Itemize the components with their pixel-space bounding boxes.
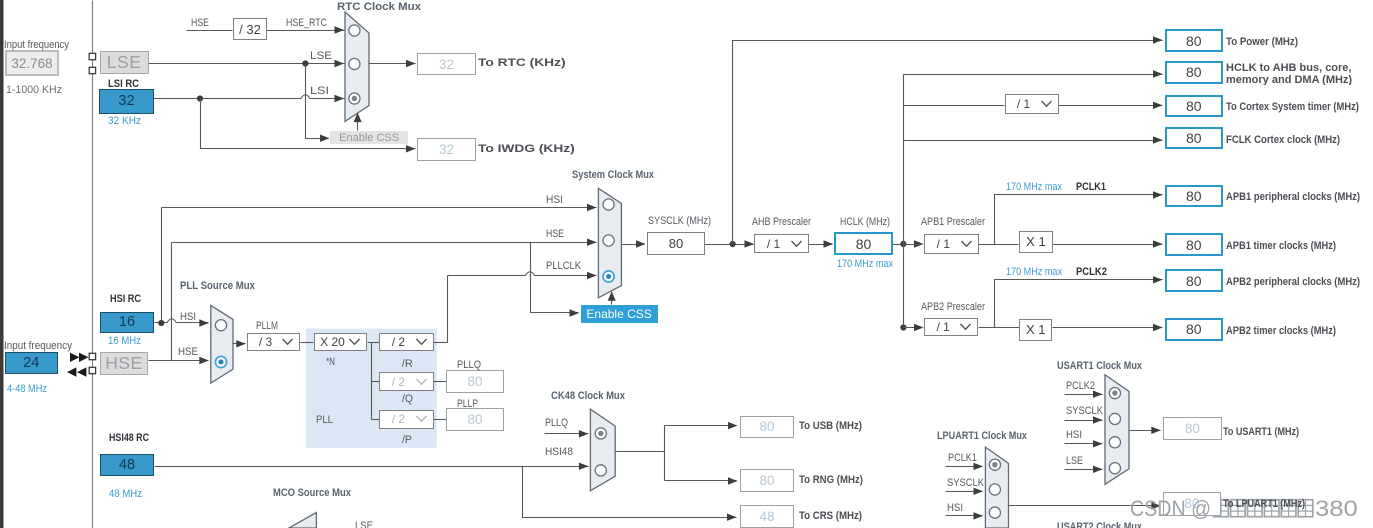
wire LSI down to IWDG	[201, 99, 416, 149]
label To CRS (MHz)	[799, 510, 862, 523]
label LSI wire	[310, 85, 329, 98]
wire PLLM to N	[301, 342, 314, 344]
wire CK48 to RNG	[665, 480, 737, 482]
arrowhead into Enable CSS rtc	[320, 135, 330, 142]
label HSI pll wire	[180, 311, 196, 324]
output box To USART1 value 80	[1163, 417, 1222, 441]
label PLLQ ck48 wire	[545, 417, 568, 430]
wire cortex prescaler to box	[1059, 105, 1163, 107]
label To USART1 (MHz)	[1223, 426, 1299, 439]
arrowhead LSE usart1	[1093, 466, 1103, 473]
arrowhead into SYSCLK	[636, 240, 646, 247]
label SYSCLK lpuart1 wire	[947, 477, 984, 490]
wire LPUART1 output	[1009, 505, 1161, 507]
wire HSE to system mux	[172, 242, 597, 244]
label PLLM	[256, 320, 278, 333]
dropdown PLLM /3	[247, 333, 301, 351]
mux PLL Source Mux	[211, 305, 233, 383]
label HSI RC	[110, 293, 141, 306]
wire HSI RC up to system mux level	[161, 208, 163, 323]
label APB1 timer clocks (MHz)	[1226, 240, 1336, 253]
label HSI lpuart1 wire	[947, 502, 963, 515]
mux RTC Clock Mux	[345, 12, 369, 121]
wire AHB to HCLK	[809, 244, 833, 246]
title RTC Clock Mux	[337, 1, 421, 14]
arrowhead HSI usart1	[1093, 440, 1103, 447]
arrowhead HSE pll	[199, 357, 209, 364]
arrowhead To Power	[1153, 36, 1163, 43]
wire HCLK to hub	[893, 244, 904, 246]
button Enable CSS system	[581, 305, 658, 323]
arrowhead LSE	[335, 60, 345, 67]
label To Cortex System timer (MHz)	[1226, 101, 1359, 114]
wire PCLK1 to LPUART1 mux	[946, 466, 983, 468]
label APB1 Prescaler	[921, 216, 985, 229]
arrowhead into IWDG box	[406, 145, 416, 152]
wire CK48 to USB	[665, 425, 737, 427]
wire N to Q	[372, 381, 380, 383]
output box PLLP value 80	[446, 408, 504, 431]
dropdown APB1 Prescaler /1	[924, 234, 979, 254]
wire HSI to LPUART1 mux	[946, 515, 983, 517]
wire PCLK2 riser	[995, 280, 1163, 328]
label 32 KHz	[108, 115, 141, 128]
output box To Power (MHz) value 80	[1165, 29, 1223, 52]
oscillator box HSE	[100, 352, 148, 375]
wire LSE to RTC mux	[149, 63, 345, 65]
junction SYSCLK to power	[730, 241, 736, 247]
wire X1 apb2 to timer box	[1053, 327, 1163, 329]
arrowhead into USB	[728, 422, 738, 429]
arrowhead HSI pll	[199, 319, 209, 326]
arrowhead LSI	[335, 95, 345, 102]
wire PLL mux output	[233, 343, 246, 345]
label AHB Prescaler	[752, 216, 811, 229]
wire HCLK to AHB bus	[904, 74, 1163, 76]
wire HCLK distribution vertical	[903, 75, 905, 328]
wire HSI48 branch to CRS	[523, 467, 737, 518]
output box FCLK Cortex clock (MHz) value 80	[1165, 127, 1223, 149]
wire X1 apb1 to timer box	[1053, 244, 1163, 246]
arrowhead PLLCLK	[587, 272, 597, 279]
oscillator box LSE	[100, 51, 149, 75]
label /Q	[402, 393, 413, 406]
label APB2 peripheral clocks (MHz)	[1226, 276, 1360, 289]
input frequency HSE value 24	[5, 352, 59, 374]
arrowhead HSI system	[587, 204, 597, 211]
arrowhead into AHB prescaler	[745, 240, 755, 247]
label HSI usart1 wire	[1066, 429, 1082, 442]
arrowhead cortex timer	[1153, 102, 1163, 109]
wire HSE stub into /32 divider	[187, 30, 233, 32]
arrowhead PCLK2 usart1	[1093, 391, 1103, 398]
wire HSE up to system mux level	[171, 243, 173, 361]
value box HCLK 80	[834, 232, 893, 255]
wire to Power riser	[733, 41, 1163, 245]
output box To IWDG value 32	[417, 138, 476, 161]
label 170 MHz max pclk2	[1006, 266, 1062, 279]
panel boundary vertical line	[92, 1, 94, 528]
left panel edge strip	[0, 0, 4, 528]
wire Enable CSS rtc up	[357, 119, 359, 131]
arrowhead PCLK1 lpuart1	[974, 463, 984, 470]
mux LPUART1 Clock Mux	[985, 447, 1008, 528]
label PCLK2	[1076, 266, 1107, 279]
label APB2 Prescaler	[921, 301, 985, 314]
label HSE system wire	[546, 228, 564, 241]
title PLL Source Mux	[180, 280, 255, 293]
label FCLK Cortex clock (MHz)	[1226, 134, 1340, 147]
wire SYSCLK to LPUART1 mux	[946, 491, 983, 493]
wire PCLK2 to USART1 mux	[1065, 394, 1103, 396]
output box APB2 timer clocks (MHz) value 80	[1165, 318, 1223, 341]
wire N to R	[372, 342, 380, 344]
wire R output	[434, 342, 448, 344]
label HCLK to AHB bus, core, memory and DMA (MHz)	[1226, 63, 1364, 84]
title USART1 Clock Mux	[1057, 360, 1142, 373]
arrowhead APB2 peripheral	[1153, 276, 1163, 283]
output box APB1 peripheral clocks (MHz) value 80	[1165, 185, 1223, 207]
pin HSE top	[89, 353, 95, 359]
output box APB1 timer clocks (MHz) value 80	[1165, 233, 1223, 256]
mux MCO Source Mux partial	[289, 513, 317, 528]
label LSI RC	[108, 78, 139, 91]
dropdown PLL *N X20	[314, 333, 368, 351]
watermark CJK glyph blocks	[1214, 500, 1229, 517]
wire SYSCLK to AHB prescaler	[705, 244, 754, 246]
dropdown APB2 Prescaler /1	[924, 318, 978, 337]
output box To LPUART1 value 80	[1163, 492, 1222, 517]
dropdown AHB Prescaler /1	[754, 234, 808, 253]
wire Q output	[434, 381, 447, 383]
arrowhead Enable CSS rtc	[354, 113, 362, 123]
wire system mux output	[622, 244, 645, 246]
arrowhead into RTC box	[406, 60, 416, 67]
arrowhead PLLQ ck48	[579, 430, 589, 437]
label 48 MHz	[109, 488, 142, 501]
label APB2 timer clocks (MHz)	[1226, 325, 1336, 338]
output box PLLQ value 80	[446, 370, 504, 393]
arrowhead into RNG	[728, 477, 738, 484]
output box APB2 peripheral clocks (MHz) value 80	[1165, 269, 1223, 292]
label input frequency HSE	[4, 340, 72, 353]
label LSE usart1 wire	[1066, 455, 1083, 468]
label HSI system wire	[546, 194, 563, 207]
arrowhead FCLK	[1153, 136, 1163, 143]
double arrow left out of HSE	[67, 367, 76, 376]
label LSE wire	[310, 50, 332, 63]
arrowhead APB1 peripheral	[1153, 191, 1163, 198]
arrowhead APB1 timer	[1153, 240, 1163, 247]
wire LSI to RTC mux	[154, 95, 345, 99]
arrowhead into CRS	[727, 514, 737, 521]
wire HSI to USART1 mux	[1065, 443, 1103, 445]
label PCLK1 lpuart1 wire	[948, 452, 977, 465]
wire HSI to system mux	[162, 207, 597, 209]
label *N	[326, 356, 335, 369]
label To USB (MHz)	[799, 420, 862, 433]
wire PLLCLK to system mux	[448, 272, 597, 276]
label PLLCLK wire	[546, 260, 581, 273]
watermark CSDN text	[1130, 496, 1211, 522]
label HSE pll wire	[178, 346, 198, 359]
label 170 MHz max pclk1	[1006, 181, 1062, 194]
arrowhead APB2 timer	[1153, 324, 1163, 331]
label To Power (MHz)	[1226, 36, 1298, 49]
label 1-1000 KHz	[6, 84, 62, 97]
label To LPUART1 (MHz)	[1223, 498, 1305, 511]
label SYSCLK (MHz)	[648, 215, 711, 228]
wire LSE to USART1 mux	[1065, 469, 1103, 471]
arrowhead HSI48 ck48	[579, 463, 589, 470]
arrowhead HSE system	[587, 239, 597, 246]
input frequency LSE value 32.768	[5, 50, 59, 76]
title USART2 Clock Mux	[1057, 521, 1142, 528]
label To RNG (MHz)	[799, 474, 863, 487]
title System Clock Mux	[572, 169, 654, 182]
junction HCLK hub bottom	[900, 324, 906, 330]
label 16 MHz	[108, 335, 141, 348]
wire HSI RC to PLL mux	[155, 319, 209, 323]
output box To USB value 80	[740, 416, 795, 439]
PLL block background	[306, 329, 437, 448]
wire CK48 branch vertical	[664, 426, 666, 481]
wire HSI48 to CK48 mux	[155, 466, 589, 468]
label To RTC (KHz)	[478, 57, 566, 70]
label 170 MHz max hclk	[837, 258, 893, 271]
label /P	[402, 434, 412, 447]
arrowhead SYSCLK usart1	[1093, 416, 1103, 423]
wire HSE down to Enable CSS system	[531, 243, 579, 313]
title CK48 Clock Mux	[551, 390, 625, 403]
oscillator box HSI RC value 16	[100, 312, 154, 333]
label PLL	[316, 414, 333, 427]
wire APB1 out	[979, 244, 1019, 246]
label PCLK2 usart1 wire	[1066, 380, 1095, 393]
dropdown PLL /Q /2	[379, 372, 433, 391]
title LPUART1 Clock Mux	[937, 430, 1027, 443]
arrowhead HSI lpuart1	[974, 512, 984, 519]
wire PCLK1 riser	[995, 195, 1163, 245]
label input frequency LSE	[4, 39, 69, 52]
junction HSI RC	[158, 320, 164, 326]
double arrow right into HSE	[70, 353, 79, 362]
label PCLK1	[1076, 181, 1106, 194]
pin LSE top	[89, 53, 95, 59]
wire PLLCLK up from PLL R divider	[447, 276, 449, 343]
wire CK48 output	[616, 451, 665, 453]
wire USART1 output	[1129, 430, 1161, 432]
watermark digits 380	[1315, 496, 1358, 522]
output box To RNG value 80	[740, 469, 795, 492]
label SYSCLK usart1 wire	[1066, 405, 1103, 418]
label HSI48 ck48 wire	[545, 446, 573, 459]
wire FCLK	[904, 140, 1163, 142]
wire LSE down to Enable CSS rtc	[306, 64, 329, 139]
label HCLK (MHz)	[840, 216, 890, 229]
output box To CRS value 48	[740, 505, 795, 528]
multiplier X1 apb1	[1019, 231, 1053, 254]
label 4-48 MHz	[7, 383, 47, 396]
label /R	[402, 358, 413, 371]
wire hub to APB1 prescaler	[904, 244, 923, 246]
wire PLLQ stub to CK48 mux	[545, 433, 589, 435]
wire HSE to PLL mux	[149, 360, 209, 362]
label PLLP	[457, 398, 478, 411]
arrowhead into USART1 box	[1151, 427, 1161, 434]
arrowhead Enable CSS system up	[608, 291, 616, 301]
label HSE rtc divider input	[191, 17, 209, 30]
arrowhead into PLLM	[236, 340, 246, 347]
mux USART1 Clock Mux	[1105, 375, 1129, 485]
oscillator box HSI48 RC value 48	[100, 454, 154, 476]
arrowhead into LPUART1 box	[1151, 502, 1161, 509]
wire RTC mux output	[369, 63, 416, 65]
value box SYSCLK 80	[647, 232, 705, 255]
pin HSE bottom	[89, 367, 95, 373]
arrowhead into APB1 prescaler	[914, 240, 924, 247]
wire SYSCLK to USART1 mux	[1065, 420, 1103, 422]
label PLLQ	[457, 359, 481, 372]
mux CK48 Clock Mux	[590, 409, 615, 491]
junction LSE	[302, 60, 308, 66]
label APB1 peripheral clocks (MHz)	[1226, 191, 1360, 204]
wire N to P	[372, 419, 380, 421]
label To IWDG (KHz)	[478, 143, 575, 156]
label HSI48 RC	[109, 432, 149, 445]
wire N output vertical	[368, 343, 372, 420]
divider /32 box	[233, 18, 267, 40]
wire Enable CSS system up	[611, 299, 613, 305]
arrowhead HSE_RTC	[335, 26, 345, 33]
label HSE_RTC	[286, 17, 327, 30]
pin LSE bottom	[89, 67, 95, 73]
mux System Clock Mux	[598, 188, 621, 297]
title MCO Source Mux	[273, 487, 351, 500]
wire to cortex prescaler	[904, 105, 1005, 107]
junction LSI	[197, 95, 203, 101]
output box To RTC value 32	[417, 53, 476, 75]
wire P output	[434, 419, 447, 421]
output box HCLK to AHB value 80	[1165, 61, 1223, 84]
output box To Cortex System timer (MHz) value 80	[1165, 95, 1223, 117]
wire APB2 out	[979, 327, 1020, 329]
wire hub to APB2 prescaler	[904, 327, 923, 329]
button Enable CSS rtc	[330, 131, 408, 145]
label LSE mco wire	[355, 520, 373, 528]
junction HCLK hub	[900, 241, 906, 247]
arrowhead SYSCLK lpuart1	[974, 488, 984, 495]
multiplier X1 apb2	[1019, 319, 1052, 341]
dropdown PLL /P /2	[379, 410, 433, 429]
dropdown PLL /R /2	[379, 333, 433, 351]
arrowhead into HCLK	[824, 240, 834, 247]
arrowhead Enable CSS system	[570, 309, 580, 316]
arrowhead into APB2 prescaler	[914, 324, 924, 331]
wire HSE_RTC to RTC mux	[267, 30, 345, 32]
arrowhead HCLK to AHB bus	[1153, 70, 1163, 77]
dropdown Cortex prescaler /1	[1005, 94, 1059, 114]
oscillator box LSI RC value 32	[99, 89, 153, 113]
